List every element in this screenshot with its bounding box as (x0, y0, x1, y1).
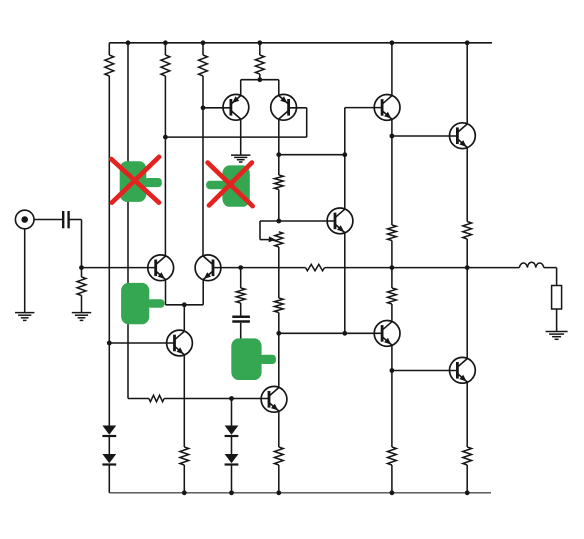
node VAS feed junction (276, 152, 281, 157)
wire Q8 emitter (278, 412, 280, 448)
wire Q3 collector (164, 76, 166, 256)
wire Q2 base loop (165, 108, 306, 137)
wire R16 to Q8 base (164, 398, 269, 400)
inductor L1 (519, 262, 543, 267)
wire upper output base (392, 135, 458, 137)
resistor R17 input shunt (77, 268, 86, 313)
wire input to Q3 base (82, 267, 156, 269)
node Q8 collector junction (276, 331, 281, 336)
transistor Q4 (195, 255, 221, 281)
wire Q5 collector (391, 43, 393, 96)
wire bias base (279, 220, 335, 222)
wire tail base (109, 342, 174, 344)
resistor R18 feedback (306, 264, 325, 270)
node Q1 base junction (201, 105, 206, 110)
resistor R13 (274, 447, 283, 493)
wire Q8 collector (278, 333, 280, 387)
node driver base junction (342, 152, 347, 157)
marker red cross 1 (111, 157, 159, 203)
wire J1 to ground (24, 229, 26, 313)
wire tail collector (183, 305, 185, 331)
wire L1 to load (544, 268, 557, 286)
wire Q2 collector (278, 119, 280, 155)
wire Q4 emitter (184, 280, 203, 305)
transistor Q6 (327, 208, 353, 234)
wire bottom base feed (128, 398, 149, 400)
transistor Q10 (450, 357, 476, 383)
node rail junction x231 (229, 490, 234, 495)
node rail junction x203 (201, 40, 206, 45)
transistor Q3 (148, 255, 174, 281)
wire Q7 emitter (466, 148, 468, 222)
resistor R10 (388, 268, 397, 322)
wire positive supply rail (109, 42, 492, 44)
node diode tap (229, 396, 234, 401)
wire Q6 emitter (344, 233, 346, 334)
resistor R2 (161, 43, 170, 76)
transistor Q2 (271, 94, 297, 120)
wire diode chain top (231, 399, 233, 426)
wire between D3 D4 (231, 437, 233, 454)
node rail junction b392 (390, 490, 395, 495)
wire bias lower (278, 247, 280, 298)
wire input to C1 (34, 219, 63, 221)
wire lower output base (392, 370, 457, 372)
wire Q10 emitter (466, 382, 468, 447)
resistor R9 (388, 136, 397, 268)
node rail junction x279 (276, 490, 281, 495)
resistor R1 (105, 43, 114, 343)
wire C1 to node (69, 220, 82, 268)
node tail-feed junction (107, 341, 112, 346)
resistor R3 (199, 43, 208, 76)
ground mirror (231, 155, 250, 162)
marker green blob 1 (120, 161, 162, 202)
resistor R8 (274, 298, 283, 333)
wire vertical x128 (127, 43, 129, 399)
wire Q10 collector (466, 268, 468, 359)
node rail junction x128 (126, 40, 131, 45)
node rail junction x468 (465, 490, 470, 495)
resistor R11 (463, 222, 472, 268)
node mirror emitter junction (257, 77, 262, 82)
resistor R7 (236, 268, 245, 303)
node lower base junction (390, 368, 395, 373)
diode D2 (102, 454, 116, 465)
wire left column lower (108, 343, 110, 426)
connector J1 input (15, 210, 34, 229)
node rail junction x467 (465, 40, 470, 45)
node rail junction x165 (163, 40, 168, 45)
wire output line right (325, 267, 520, 269)
wire D4 to rail (231, 466, 233, 493)
node bias top junction (276, 219, 281, 224)
marker red cross 2 (208, 163, 253, 207)
ground load (546, 332, 568, 340)
diode D1 (102, 426, 116, 437)
wire Q1 collector (240, 119, 242, 155)
resistor R15 (463, 447, 472, 493)
wire output line (213, 267, 306, 269)
wire predriver base (279, 332, 382, 334)
transistor Q7 (450, 123, 476, 149)
wire tail emitter (183, 355, 185, 447)
resistor R16 (149, 395, 164, 401)
wire mirror emitter bus (241, 80, 279, 96)
capacitor C2 (232, 303, 250, 344)
wire D2 to rail (108, 466, 110, 493)
diode D4 (225, 454, 239, 465)
capacitor C1 (63, 211, 68, 228)
resistor RL load (552, 286, 562, 310)
resistor R14 (388, 447, 397, 493)
wire Q3 emitter (166, 280, 185, 305)
marker green blob 3 (121, 283, 164, 324)
wire negative supply rail (109, 492, 491, 494)
node feedback junction (238, 265, 243, 270)
wire Q7 collector (466, 43, 468, 124)
node output junction upper (465, 265, 470, 270)
ground J1 (15, 313, 34, 321)
node upper base junction (390, 134, 395, 139)
wire mirror to VAS (279, 154, 345, 156)
transistor Q9 (374, 321, 400, 347)
node input junction (79, 265, 84, 270)
node mirror sense junction (163, 135, 168, 140)
resistor R4 (255, 43, 264, 80)
wire load to ground (556, 309, 558, 332)
resistor R5 (274, 155, 283, 221)
node rail junction x392 (390, 40, 395, 45)
transistor Q1 (223, 94, 249, 120)
node output junction mid (390, 265, 395, 270)
wire between D1 D2 (108, 437, 110, 454)
wire Q1 base (203, 107, 231, 109)
wire Q9 emitter (391, 345, 393, 447)
wire Q4 collector (202, 76, 204, 256)
marker green blob 4 (231, 338, 276, 380)
node rail junction x260 (257, 40, 262, 45)
transistor Q8 (261, 386, 287, 412)
ground input shunt (72, 313, 91, 321)
node rail junction x184 (182, 490, 187, 495)
diode D3 (225, 426, 239, 437)
transistor Q5 (374, 95, 400, 121)
transistor Q11 tail (167, 330, 193, 356)
wire Q5 emitter (391, 119, 393, 136)
marker green blob 2 (206, 165, 250, 206)
wire driver base column (345, 108, 382, 209)
resistor R12 (180, 447, 189, 493)
node predriver base junction (342, 331, 347, 336)
potentiometer VR1 (260, 221, 283, 247)
node emitter junction (182, 302, 187, 307)
